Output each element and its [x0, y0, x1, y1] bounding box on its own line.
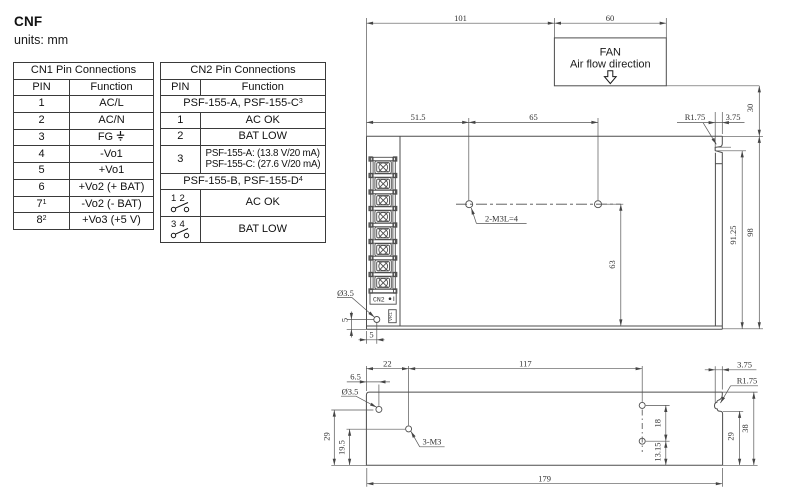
terminal barrier 6 [370, 240, 396, 243]
svg-text:5: 5 [369, 330, 373, 340]
extension top edge right [722, 135, 763, 137]
terminal barrier 8 [370, 273, 396, 276]
dimension 22 [366, 368, 408, 370]
svg-text:Ø3.5: Ø3.5 [337, 288, 354, 298]
dimension 38 [753, 392, 755, 465]
dim 5 horizontal ext+line [359, 323, 385, 344]
svg-text:5: 5 [340, 318, 350, 322]
dim 3.75 side [705, 366, 757, 402]
svg-text:63: 63 [607, 260, 617, 269]
ext bottom left [331, 464, 366, 466]
side view right edge with R1.75 groove [715, 392, 723, 465]
centerline through chassis holes [456, 203, 621, 205]
svg-text:51.5: 51.5 [411, 112, 426, 122]
ext hole S1 left / dim 29 left [331, 410, 373, 465]
svg-text:13.15: 13.15 [653, 442, 663, 461]
svg-text:3-M3: 3-M3 [423, 437, 442, 447]
ext top edge right side view [722, 391, 757, 393]
dim 5 vertical ext+line [347, 312, 374, 338]
dimension 30 [758, 86, 760, 137]
svg-text:101: 101 [454, 13, 467, 23]
centerline holes S3-S4 [641, 410, 643, 453]
svg-text:29: 29 [725, 432, 735, 441]
top view case outline [367, 136, 723, 329]
dimension R1.75 3.75 top [677, 112, 745, 150]
svg-text:Ø3.5: Ø3.5 [342, 386, 359, 396]
svg-text:22: 22 [383, 358, 392, 368]
potentiometer VR1 box [389, 310, 397, 323]
arrows top view [367, 22, 374, 25]
svg-text:VR1: VR1 [388, 312, 394, 321]
svg-text:98: 98 [745, 228, 755, 237]
ext holes S3 S4 right [646, 405, 670, 441]
svg-text:3.75: 3.75 [726, 112, 741, 122]
svg-text:18: 18 [653, 419, 663, 428]
svg-text:117: 117 [519, 358, 531, 368]
dimension 18 [665, 405, 667, 441]
svg-text:2-M3L=4: 2-M3L=4 [485, 213, 519, 223]
extension line hole H2 up [597, 118, 599, 200]
terminal barrier 9 [370, 289, 396, 292]
dimension 179 [367, 468, 723, 487]
top view inner front wall line [399, 136, 401, 326]
svg-text:3.75: 3.75 [737, 359, 752, 369]
ext holes S3 up [641, 366, 643, 402]
extension line hole H1 up [468, 118, 470, 200]
svg-text:60: 60 [606, 13, 615, 23]
svg-text:179: 179 [538, 474, 551, 484]
terminal screw 2 [375, 178, 391, 190]
dimension 29 right [739, 411, 741, 465]
dimension 65 [469, 121, 598, 123]
leader 2-M3L=4 [471, 208, 526, 223]
chassis hole H1 (M3) [466, 201, 473, 208]
fan box [554, 38, 666, 86]
svg-text:65: 65 [529, 112, 538, 122]
fan air flow arrow [604, 71, 616, 84]
extension line fan right [665, 18, 667, 38]
mounting hole bottom-left (dia 3.5) [374, 317, 380, 323]
terminal barrier 2 [370, 174, 396, 177]
table CN1 Pin Connections [13, 62, 154, 230]
extension bottom edge right [722, 328, 763, 330]
side hole S2 (3-M3) [406, 426, 412, 432]
svg-text:91.25: 91.25 [728, 225, 738, 244]
leader dia 3.5 top view [337, 298, 374, 318]
top view right wall tick [715, 163, 722, 165]
extension line fan left [553, 18, 555, 38]
svg-text:38: 38 [740, 424, 750, 433]
svg-text:R1.75: R1.75 [737, 376, 758, 386]
side hole S1 (dia 3.5) [376, 406, 382, 412]
table CN2 Pin Connections [160, 62, 326, 243]
terminal barrier 5 [370, 223, 396, 226]
ext hole S2 up [408, 366, 410, 425]
ext left edge up [365, 366, 367, 391]
side hole S4 [639, 438, 645, 444]
leader 3-M3 [411, 431, 445, 447]
leader R1.75 side [720, 386, 758, 403]
ext groove right [723, 410, 743, 412]
extension notch 91.25 [715, 147, 746, 151]
terminal screw 3 [375, 194, 391, 206]
svg-text:CN2: CN2 [373, 296, 385, 303]
chassis hole H2 (M3) [595, 201, 602, 208]
terminal screw 5 [375, 227, 391, 239]
terminal barrier 1 [370, 157, 396, 160]
svg-text:R1.75: R1.75 [685, 112, 706, 122]
terminal screw 7 [375, 260, 391, 272]
side hole S3 [639, 402, 645, 408]
leader R1.75 top view [703, 123, 716, 145]
terminal block side rails [371, 157, 373, 289]
side view outline [366, 392, 722, 465]
dimension 117 [409, 368, 643, 370]
top view right side wall profile [715, 136, 722, 329]
svg-text:19.5: 19.5 [337, 440, 347, 455]
dimension 60 [554, 22, 666, 24]
dimension 101 [367, 22, 555, 24]
terminal screw 1 [375, 161, 391, 173]
ext bottom edge right side view [723, 464, 758, 466]
dimension 98 [758, 136, 760, 328]
svg-text:30: 30 [745, 104, 755, 113]
terminal barrier 4 [370, 207, 396, 210]
svg-text:FAN: FAN [600, 47, 621, 59]
terminal screw 4 [375, 211, 391, 223]
terminal screw 6 [375, 244, 391, 256]
leader dia3.5 side [341, 396, 377, 407]
svg-text:29: 29 [322, 432, 332, 441]
ext hole S2 left / dim 19.5 [347, 429, 406, 465]
svg-text:Air flow direction: Air flow direction [570, 59, 651, 71]
terminal barrier 3 [370, 190, 396, 193]
svg-text:6.5: 6.5 [350, 372, 361, 382]
dimension 13.15 [665, 441, 667, 465]
fan bottom line to right dims [666, 85, 759, 87]
arrows side view [366, 367, 373, 370]
terminal barrier 7 [370, 256, 396, 259]
connector CN2 label box [370, 293, 396, 304]
dimension 51.5 [367, 121, 469, 123]
terminal block TB1 (8 screw terminals) [369, 157, 397, 293]
terminal screw 8 [375, 277, 391, 289]
dimension 91.25 [741, 151, 743, 329]
dimension 6.5 [347, 382, 390, 406]
dimension 63 [602, 204, 624, 326]
extension line left edge (top dims) [366, 18, 368, 136]
